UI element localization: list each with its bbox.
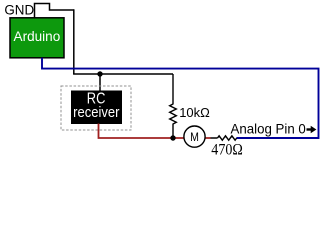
wire: vertical drop right of Arduino <box>73 9 75 74</box>
wire: GND bus horizontal to resistor R1 <box>73 73 173 75</box>
wire: junction down to RC receiver <box>99 74 101 91</box>
svg-text:470Ω: 470Ω <box>211 141 243 158</box>
module Arduino <box>10 18 64 58</box>
svg-text:M: M <box>190 130 199 144</box>
wire: motor to resistor R2 <box>211 137 218 139</box>
wire (red): RC receiver output to motor <box>99 124 211 139</box>
wire: Arduino GND pin step to bus <box>35 4 74 18</box>
module RC receiver <box>61 86 131 130</box>
svg-text:Analog Pin 0: Analog Pin 0 <box>231 120 306 136</box>
arrow to analog pin net <box>307 126 317 133</box>
wire (blue): Arduino analog pin 0 net <box>42 58 319 138</box>
motor M1 <box>184 126 205 147</box>
resistor R2 <box>218 136 237 140</box>
junction: R1 / motor node <box>170 135 175 140</box>
svg-text:receiver: receiver <box>73 105 119 121</box>
svg-text:Arduino: Arduino <box>14 29 61 44</box>
svg-text:10kΩ: 10kΩ <box>179 105 210 120</box>
resistor R1 <box>170 74 177 138</box>
junction: GND bus / RC receiver <box>97 71 102 76</box>
svg-text:GND: GND <box>4 3 34 18</box>
